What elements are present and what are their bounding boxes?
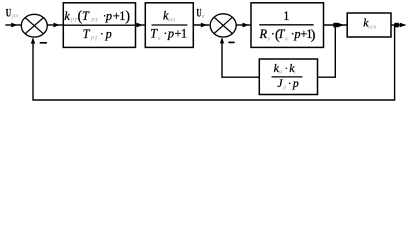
svg-text:ут: ут	[10, 14, 19, 20]
svg-text:p: p	[105, 27, 112, 41]
svg-text:РТ: РТ	[90, 37, 99, 43]
wire block3 to block4	[324, 24, 347, 26]
svg-text:п: п	[158, 36, 161, 42]
svg-text:тп: тп	[168, 18, 175, 24]
block regulator R1: k_rt(T_rt p+1)/(T_rt p)	[63, 3, 135, 48]
svg-text:T: T	[83, 27, 91, 41]
wire block1 to block2	[136, 24, 145, 26]
svg-text:): )	[311, 28, 316, 43]
wire summer1 to block1	[48, 24, 63, 26]
svg-text:U: U	[196, 7, 201, 19]
block sensor R4: k_osn	[347, 13, 391, 37]
svg-text:с: с	[294, 70, 297, 76]
svg-text:осн: осн	[368, 24, 377, 30]
svg-text:p: p	[167, 27, 174, 41]
wire block4 to output	[391, 24, 405, 26]
block converter R2: k_tp/(T_p p+1)	[145, 3, 193, 48]
svg-text:p: p	[292, 76, 299, 90]
wire summer2 to block3	[237, 24, 251, 26]
svg-text:я: я	[266, 36, 270, 42]
minus sign at summer 2	[228, 41, 234, 43]
wire emf block to summer2 bottom	[222, 39, 259, 78]
svg-text:·: ·	[288, 76, 292, 90]
svg-text:1: 1	[181, 27, 187, 41]
junction node B	[394, 23, 399, 28]
svg-text:·: ·	[100, 27, 104, 41]
svg-text:): )	[125, 9, 130, 25]
wire input to summer 1	[5, 24, 20, 26]
block emf feedback R5: k_m k_c/(J_d p)	[259, 59, 317, 95]
svg-text:p: p	[105, 9, 112, 23]
svg-text:·: ·	[163, 27, 167, 41]
svg-text:1: 1	[283, 9, 289, 23]
wire outer feedback junction B down, along bottom, up to summer1	[33, 25, 395, 100]
block armature R3: 1/(R_ya(T_ya p+1))	[251, 3, 324, 48]
summing junction 1	[21, 14, 47, 37]
wire junction A down to emf feedback block	[318, 25, 335, 77]
svg-text:я: я	[284, 36, 288, 42]
svg-text:м: м	[277, 70, 282, 76]
svg-text:д: д	[283, 84, 286, 91]
svg-text:·: ·	[284, 61, 288, 75]
svg-text:я: я	[201, 14, 205, 20]
junction node A	[333, 23, 338, 28]
summing junction 2	[210, 14, 236, 37]
svg-text:РТ: РТ	[90, 18, 99, 24]
wire block2 to summer2	[193, 24, 209, 26]
svg-text:R: R	[259, 27, 268, 41]
minus sign at summer 1	[40, 42, 47, 44]
svg-text:T: T	[82, 9, 90, 23]
